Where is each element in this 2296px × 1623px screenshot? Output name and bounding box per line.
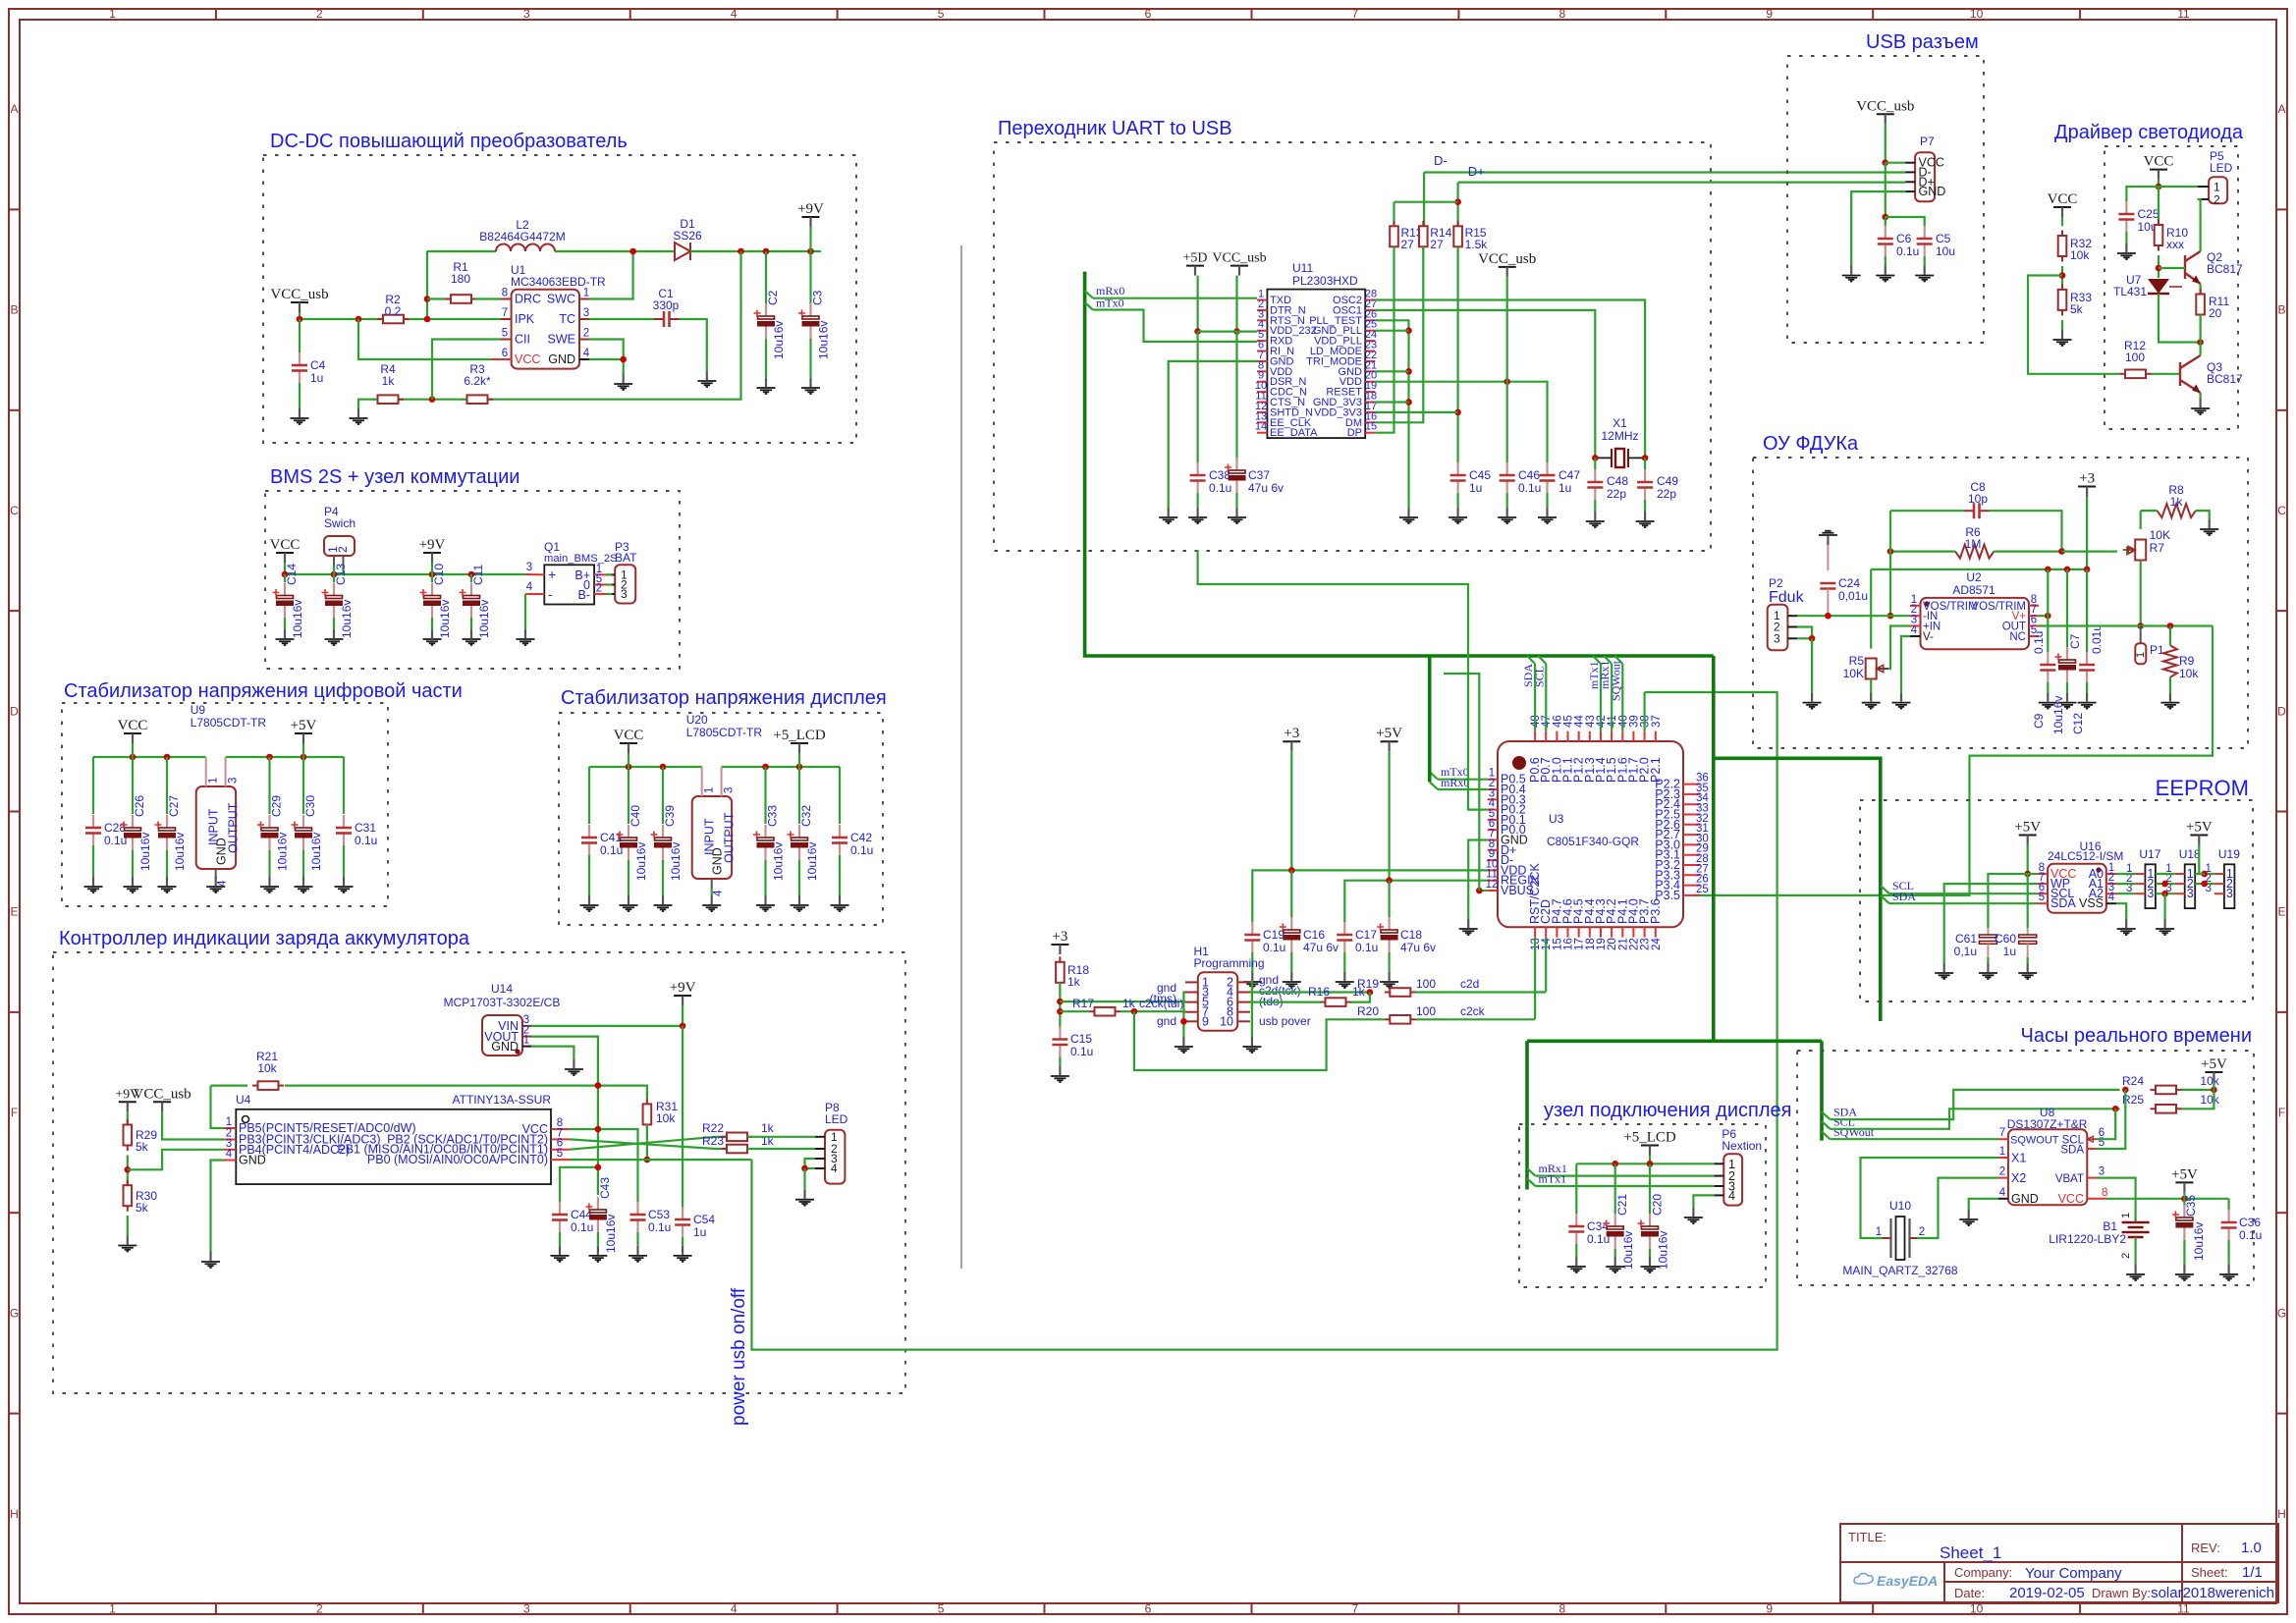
svg-text:24: 24: [1651, 938, 1663, 950]
svg-text:C15: C15: [1070, 1032, 1092, 1046]
junction: [595, 1164, 602, 1171]
svg-text:10u16v: 10u16v: [138, 833, 152, 871]
svg-text:U19: U19: [2218, 847, 2240, 861]
net flag +5_LCD: [791, 742, 808, 744]
inductor L2: [496, 244, 555, 251]
svg-text:C11: C11: [471, 565, 485, 585]
wire C36 gnd: [2228, 1240, 2230, 1265]
wire C2 to ground: [765, 339, 767, 378]
svg-text:Sheet_1: Sheet_1: [1940, 1543, 2001, 1562]
svg-text:3: 3: [621, 587, 628, 601]
svg-text:c2ck: c2ck: [1460, 1004, 1486, 1018]
ground: [565, 1059, 583, 1075]
wire C6 gnd: [1885, 256, 1886, 266]
wire U17-U18 r1: [2156, 873, 2175, 875]
ground: [697, 371, 716, 387]
svg-text:U18: U18: [2179, 847, 2201, 861]
junction: [1887, 548, 1894, 555]
crystal U10 MAIN_QARTZ_32768: [1891, 1218, 1910, 1258]
svg-text:23: 23: [1640, 938, 1652, 950]
resistor R20: [1385, 1015, 1416, 1024]
svg-text:3: 3: [526, 562, 532, 573]
svg-text:Company:: Company:: [1954, 1565, 2012, 1580]
svg-text:8: 8: [502, 288, 508, 299]
svg-text:VCC: VCC: [2058, 1192, 2084, 1206]
resistor R25: [2151, 1105, 2182, 1113]
junction: [2211, 1087, 2217, 1094]
wire R11 to node: [2200, 315, 2202, 343]
wire VCC to R10: [2158, 187, 2159, 221]
capacitor C5: [1924, 226, 1926, 239]
svg-text:0.1u: 0.1u: [1263, 941, 1285, 954]
wire R18 down: [1059, 983, 1061, 1027]
ground: [1538, 508, 1557, 523]
junction: [468, 571, 475, 578]
svg-text:0.1u: 0.1u: [571, 1220, 593, 1234]
wire to C21: [1614, 1163, 1616, 1214]
wire c2ck(tdi) row: [1121, 1010, 1185, 1012]
svg-text:DS1307Z+T&R: DS1307Z+T&R: [2007, 1117, 2088, 1131]
ground: [2175, 1265, 2194, 1280]
wire to C32: [798, 767, 800, 824]
svg-text:10k: 10k: [257, 1061, 277, 1075]
junction: [1233, 328, 1240, 335]
capacitor C48: [1594, 469, 1596, 482]
svg-text:10: 10: [1220, 1014, 1233, 1028]
svg-text:5: 5: [938, 7, 945, 21]
ground: [423, 629, 442, 645]
svg-text:14: 14: [1255, 421, 1267, 433]
svg-text:5: 5: [557, 1148, 563, 1160]
wire VIN to +9V: [531, 1025, 683, 1027]
ground: [580, 895, 599, 911]
resistor R15: [1453, 221, 1462, 252]
junction: [2024, 871, 2031, 878]
wire C42 to ground: [839, 855, 841, 895]
wire to C20: [1649, 1163, 1651, 1214]
wire VCC stub: [132, 743, 134, 757]
capacitor C43: [597, 1197, 599, 1210]
wire c2d to MCU: [1416, 991, 1546, 993]
wire tms row: [1060, 1001, 1185, 1002]
svg-text:2: 2: [1919, 1226, 1925, 1238]
wire C11 to ground: [470, 618, 472, 629]
ground: [1498, 508, 1516, 523]
wire V+: [2039, 615, 2048, 617]
wire to C46: [1506, 382, 1508, 462]
shunt regulator U7 TL431: [2148, 279, 2169, 294]
ground: [1380, 972, 1398, 988]
net flag VCC: [2150, 169, 2167, 171]
svg-text:1k: 1k: [1122, 997, 1136, 1010]
svg-text:U9: U9: [191, 703, 206, 717]
wire to C33: [764, 767, 766, 824]
junction: [1386, 877, 1393, 884]
svg-text:4: 4: [1999, 1187, 2006, 1199]
svg-text:C40: C40: [629, 805, 642, 827]
wire to C2: [765, 251, 767, 303]
ground: [614, 374, 632, 390]
svg-text:D+: D+: [1468, 164, 1485, 179]
svg-text:C33: C33: [766, 805, 780, 827]
wire C54 gnd: [682, 1237, 683, 1246]
junction: [1405, 399, 1412, 406]
junction: [2112, 1106, 2119, 1112]
capacitor C12: [2086, 652, 2088, 665]
wire H1 gnd rail: [1183, 993, 1185, 1038]
svg-text:Контроллер индикации заряда ак: Контроллер индикации заряда аккумулятора: [59, 928, 470, 949]
svg-text:C20: C20: [1651, 1194, 1665, 1216]
wire R12 to Q3 base: [2152, 373, 2181, 375]
wire P2.0 up: [1643, 692, 1645, 731]
wire VCC_usb to PB3: [162, 1111, 224, 1139]
wire +9V rail down: [682, 1026, 683, 1210]
svg-text:+5_LCD: +5_LCD: [1623, 1130, 1676, 1146]
junction: [125, 1166, 132, 1173]
wire mTx1 tap: [1600, 664, 1602, 731]
wire VCC stub: [628, 753, 629, 767]
wire WP to ground: [1944, 884, 2038, 963]
ground: [350, 408, 368, 424]
wire to C28: [92, 757, 94, 814]
wire to C40: [628, 767, 629, 824]
svg-text:10k: 10k: [2070, 248, 2090, 262]
svg-text:C47: C47: [1558, 468, 1580, 482]
wire C37 gnd: [1235, 493, 1237, 508]
svg-text:main_BMS_2S: main_BMS_2S: [544, 553, 618, 565]
wire to R17: [1060, 1010, 1089, 1012]
svg-text:E: E: [2277, 905, 2285, 919]
wire SCL to pin6: [1889, 893, 2038, 894]
svg-text:SS26: SS26: [673, 229, 702, 243]
wire A1 to U17: [2116, 883, 2135, 885]
wire rail to R5: [1870, 569, 1872, 649]
wire R24 right: [2182, 1089, 2214, 1091]
ground: [206, 877, 225, 893]
wire to L2: [427, 250, 496, 252]
svg-text:1k: 1k: [761, 1121, 775, 1135]
wire +5 row: [1576, 1163, 1714, 1164]
svg-text:10K: 10K: [1843, 667, 1864, 680]
svg-text:IPK: IPK: [515, 312, 535, 326]
capacitor C28: [92, 815, 94, 828]
section box: EEPROM: [1860, 800, 2253, 1001]
junction: [660, 764, 667, 771]
capacitor C39: [662, 825, 664, 838]
ground: [1159, 508, 1177, 523]
ground: [2058, 693, 2077, 709]
svg-text:5k: 5k: [136, 1201, 149, 1215]
wire to U1 VCC pin: [358, 319, 491, 359]
svg-text:100: 100: [2125, 351, 2145, 364]
wire +9V stub: [809, 227, 811, 251]
junction: [2122, 1087, 2129, 1094]
bus drop to display node: [1525, 1041, 1529, 1189]
svg-text:Часы реального времени: Часы реального времени: [2020, 1025, 2252, 1047]
svg-text:VCC: VCC: [614, 728, 644, 743]
ground: [1228, 508, 1246, 523]
resistor R24: [2151, 1086, 2182, 1095]
capacitor C37: [1235, 458, 1237, 470]
svg-text:R23: R23: [702, 1134, 724, 1148]
capacitor C17: [1343, 922, 1345, 935]
wire to C18: [1388, 881, 1390, 917]
bus entry: [1085, 302, 1093, 310]
wire +9V stub: [431, 563, 433, 574]
svg-text:R9: R9: [2179, 654, 2195, 668]
net flag +5D: [1186, 265, 1204, 267]
svg-text:ATTINY13A-SSUR: ATTINY13A-SSUR: [453, 1093, 552, 1107]
wire C45 gnd: [1456, 493, 1458, 508]
wire SWE loop: [589, 340, 624, 360]
junction: [644, 1157, 651, 1163]
capacitor C20: [1649, 1214, 1651, 1226]
svg-text:USB разъем: USB разъем: [1866, 31, 1979, 53]
svg-text:43: 43: [1585, 715, 1597, 728]
svg-text:1u: 1u: [693, 1225, 706, 1239]
bus vertical main: [1712, 656, 1716, 1041]
svg-text:1: 1: [1876, 1226, 1882, 1238]
bus entry: [1822, 1111, 1831, 1119]
wire Q2 collector to P5 2: [2198, 199, 2201, 251]
svg-text:15: 15: [1365, 421, 1377, 433]
capacitor C13: [333, 583, 335, 596]
wire C4 to ground: [299, 383, 301, 408]
svg-text:C43: C43: [598, 1177, 612, 1199]
wire VCC to R32: [2061, 217, 2063, 226]
wire C61 gnd: [1987, 957, 1989, 963]
wire U14 gnd: [531, 1047, 574, 1059]
svg-text:DRC: DRC: [515, 293, 541, 306]
capacitor C6: [1885, 226, 1886, 239]
bus entry: [1527, 1168, 1536, 1176]
section box: BMS 2S: [265, 491, 680, 669]
svg-text:3: 3: [1774, 631, 1780, 645]
ground: [1862, 693, 1881, 709]
junction: [1454, 198, 1461, 205]
wire Q1 to P3 1: [606, 573, 612, 575]
wire VCC_usb down: [1885, 124, 1886, 162]
wire P2 gnd: [1811, 638, 1813, 692]
net flag VCC: [2053, 206, 2071, 208]
capacitor C7: [2066, 647, 2068, 660]
ground: [1684, 1208, 1703, 1223]
ic U8 DS1307Z+T&R: [2008, 1129, 2087, 1205]
ground: [756, 895, 775, 911]
wire U3 gnd: [1468, 840, 1488, 920]
wire SQWout tap: [1621, 664, 1623, 731]
wire R4 to ground: [358, 400, 377, 408]
title block: [1840, 1524, 2278, 1602]
wire VCC stub: [284, 563, 286, 574]
svg-text:mRx0: mRx0: [1441, 776, 1469, 789]
svg-text:0.1u: 0.1u: [1070, 1045, 1093, 1058]
svg-text:C46: C46: [1518, 468, 1540, 482]
svg-text:10u16v: 10u16v: [438, 600, 452, 638]
svg-text:47u 6v: 47u 6v: [1303, 941, 1339, 954]
junction: [1367, 989, 1374, 996]
net flag VCC_usb: [1499, 266, 1516, 268]
svg-text:SDA: SDA: [2060, 1145, 2084, 1157]
section box: LED driver: [2105, 146, 2238, 429]
svg-text:22p: 22p: [1657, 487, 1676, 501]
svg-text:xxx: xxx: [2166, 238, 2184, 251]
svg-text:47u 6v: 47u 6v: [1400, 941, 1436, 954]
svg-text:6: 6: [1145, 1602, 1152, 1616]
svg-text:3: 3: [2099, 1166, 2105, 1178]
capacitor C54: [682, 1207, 683, 1219]
wire R31 to PB0 row: [646, 1125, 648, 1161]
svg-text:3: 3: [2226, 887, 2233, 900]
junction: [2058, 548, 2065, 555]
capacitor C26: [132, 815, 134, 828]
svg-text:VCC_usb: VCC_usb: [1856, 98, 1914, 114]
ground: [1959, 1210, 1978, 1225]
bus entry: [1538, 656, 1546, 664]
svg-text:11: 11: [2177, 7, 2190, 21]
svg-text:10u16v: 10u16v: [634, 842, 648, 881]
svg-text:C6: C6: [1896, 232, 1912, 245]
net flag VCC_usb: [291, 301, 308, 303]
svg-text:1M: 1M: [1965, 537, 1982, 551]
svg-text:L7805CDT-TR: L7805CDT-TR: [686, 726, 763, 739]
svg-text:solar2018werenich: solar2018werenich: [2151, 1585, 2274, 1601]
svg-text:+: +: [548, 567, 556, 582]
svg-text:PL2303HXD: PL2303HXD: [1292, 274, 1358, 288]
capacitor C38: [1196, 462, 1198, 475]
svg-text:C: C: [10, 504, 19, 517]
bus entry: [1881, 886, 1889, 893]
svg-text:R17: R17: [1072, 997, 1094, 1010]
wire output rail: [722, 766, 840, 768]
svg-text:1.5k: 1.5k: [1465, 238, 1489, 251]
wire R16 to c2d node: [1351, 993, 1370, 1002]
wire R3 to R4: [399, 399, 466, 401]
svg-text:G: G: [2277, 1306, 2286, 1320]
wire C25 gnd: [2125, 232, 2127, 243]
svg-text:R5: R5: [1849, 654, 1865, 668]
wire L2 to D1: [555, 250, 675, 252]
wire to C26: [132, 757, 134, 814]
wire U18-U19 r1: [2195, 873, 2214, 875]
svg-text:C45: C45: [1469, 468, 1491, 482]
bus entry: [1822, 1121, 1831, 1129]
wire to C27: [166, 757, 168, 814]
svg-text:8: 8: [1558, 7, 1565, 21]
connector P1: [2135, 643, 2146, 664]
net flag VCC_usb: [153, 1101, 171, 1103]
junction: [807, 248, 814, 255]
wire R22 to P8 1: [747, 1136, 815, 1138]
svg-text:P3.6: P3.6: [1649, 898, 1663, 924]
capacitor C35: [2183, 1205, 2185, 1217]
svg-text:C30: C30: [303, 795, 317, 817]
capacitor C36: [2228, 1210, 2230, 1222]
svg-text:+9V: +9V: [797, 201, 824, 217]
ground: [124, 877, 142, 893]
net flag +5V: [2175, 1181, 2193, 1183]
junction: [1405, 327, 1412, 334]
svg-text:10k: 10k: [656, 1111, 676, 1125]
wire +3 down: [2086, 497, 2088, 569]
ground: [795, 1190, 814, 1206]
transistor Q2 BC817: [2185, 251, 2201, 284]
ground: [1459, 919, 1478, 935]
wire FB to CII: [432, 340, 501, 400]
wire VSS gnd: [2116, 903, 2126, 919]
svg-text:R24: R24: [2122, 1074, 2144, 1088]
wire to C48: [1594, 458, 1596, 469]
wire to gnd rail: [1375, 370, 1408, 372]
wire X1 to crystal: [1861, 1158, 1999, 1238]
wire R9 gnd: [2169, 677, 2171, 693]
wire to R23: [716, 1148, 727, 1150]
svg-text:G: G: [10, 1306, 19, 1320]
svg-text:EasyEDA: EasyEDA: [1877, 1573, 1938, 1589]
wire R32 to R33: [2061, 266, 2063, 286]
wire C17 gnd: [1343, 952, 1345, 972]
svg-text:C12: C12: [2071, 713, 2085, 734]
wire VCC_usb input: [300, 318, 383, 320]
wire to C11: [470, 574, 472, 582]
wire regulator gnd: [711, 889, 713, 895]
wire divider to R12: [2028, 276, 2120, 374]
wire D- to USB: [1424, 171, 1905, 173]
bus branch to EEPROM: [1714, 758, 1881, 1021]
svg-text:4: 4: [831, 1162, 838, 1175]
ground: [2078, 693, 2097, 709]
svg-text:B: B: [2277, 303, 2285, 317]
ground: [1979, 963, 1997, 979]
wire P2 pin2: [1797, 627, 1812, 639]
svg-text:C49: C49: [1657, 474, 1678, 488]
svg-text:C18: C18: [1400, 928, 1422, 942]
svg-text:TL431: TL431: [2113, 285, 2147, 298]
svg-text:3: 3: [228, 778, 240, 784]
wire battery positive rail: [285, 573, 525, 575]
EasyEDA logo: [1854, 1573, 1938, 1589]
bus drop to RTC: [1820, 1041, 1824, 1140]
capacitor C2: [765, 303, 767, 316]
svg-text:R20: R20: [1357, 1004, 1379, 1018]
svg-text:1k: 1k: [382, 374, 396, 388]
svg-text:Swich: Swich: [324, 516, 355, 530]
ground: [1935, 963, 1953, 979]
wire R7 to OUT row: [2140, 561, 2142, 626]
svg-text:C2: C2: [766, 290, 780, 305]
wire R8 left: [2141, 510, 2158, 512]
svg-text:45: 45: [1563, 715, 1575, 728]
wire VCC_usb down: [1235, 276, 1237, 332]
svg-text:1u: 1u: [1469, 481, 1482, 495]
svg-text:10u16v: 10u16v: [805, 842, 819, 881]
wire C28 to ground: [92, 845, 94, 877]
ground: [831, 895, 849, 911]
svg-text:X1: X1: [2011, 1152, 2026, 1165]
bus entry: [1593, 656, 1601, 664]
svg-text:R7: R7: [2150, 541, 2165, 555]
resistor R17: [1089, 1007, 1121, 1016]
junction: [2045, 567, 2051, 573]
wire VDD to C47: [1375, 382, 1547, 462]
svg-text:1: 1: [109, 7, 116, 21]
wire mRx1 row: [1536, 1174, 1715, 1176]
junction: [801, 1165, 808, 1172]
ground: [1606, 1257, 1624, 1272]
section box: Стабилизатор напряжения дисплея: [559, 713, 883, 925]
svg-text:VCC: VCC: [2048, 191, 2078, 207]
capacitor C60: [2019, 935, 2037, 938]
